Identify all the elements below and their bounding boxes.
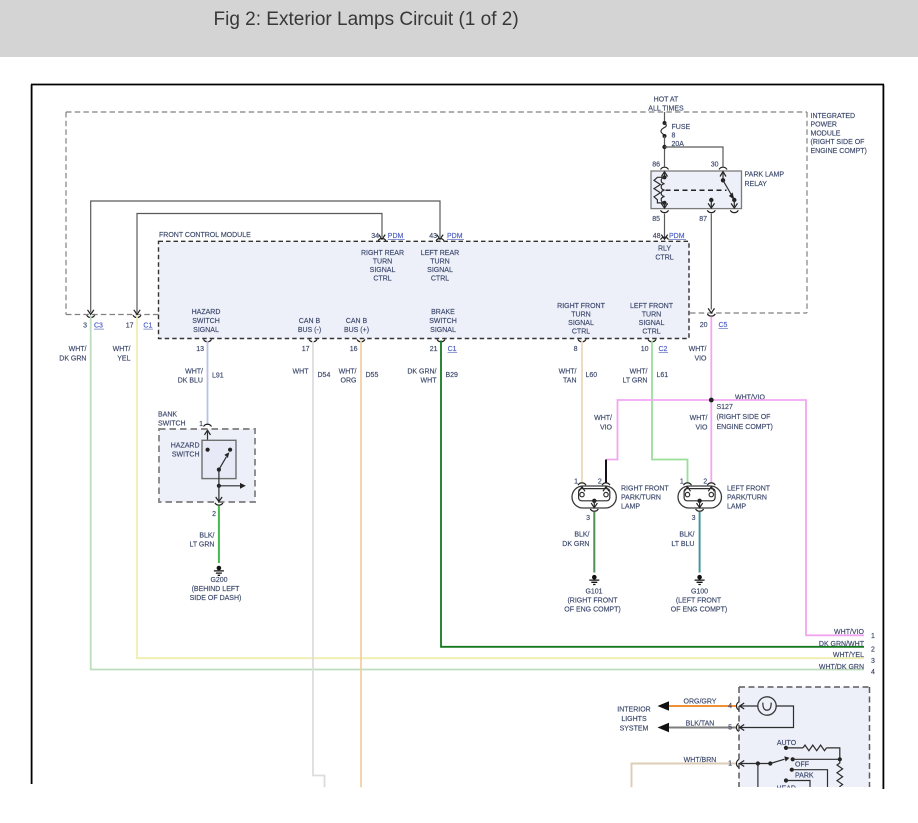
svg-text:WHT/: WHT/ (339, 369, 357, 376)
svg-text:C3: C3 (94, 323, 103, 330)
svg-text:BLK/: BLK/ (574, 532, 589, 539)
wire BLK/TAN to interior lights (663, 727, 737, 729)
hazard switch input wire (207, 430, 209, 450)
wire BLK/LT GRN (218, 506, 220, 563)
right lamp pin 1 (574, 479, 586, 492)
relay switch common wire (722, 172, 724, 181)
node HOT AT ALL TIMES (648, 97, 684, 113)
svg-text:RLY: RLY (658, 246, 671, 253)
svg-text:BRAKE: BRAKE (431, 309, 455, 316)
pin 87a cup (730, 210, 738, 212)
node BRAKE SWITCH SIGNAL (429, 309, 457, 334)
bank switch box (159, 429, 255, 502)
left lamp common junction (697, 499, 701, 503)
diagram frame (31, 85, 884, 790)
interior lights system label (617, 707, 650, 733)
ground G200 (214, 566, 224, 576)
svg-text:(RIGHT FRONT: (RIGHT FRONT (567, 598, 618, 605)
wire WHT/DK BLU hazard switch signal (207, 341, 209, 425)
svg-text:G100: G100 (691, 589, 708, 596)
svg-text:HOT AT: HOT AT (654, 97, 679, 104)
svg-text:2: 2 (598, 479, 602, 486)
IPM label (811, 113, 867, 155)
relay K1 park lamp relay box (651, 171, 742, 209)
svg-text:13: 13 (196, 346, 204, 353)
DK GRN/WHT label (407, 369, 437, 385)
S127 label (717, 395, 773, 432)
svg-text:WHT/BRN: WHT/BRN (684, 757, 717, 764)
WHT/DK BLU label (178, 369, 203, 385)
wire WHT/DK GRN (circuit 4) (91, 316, 864, 670)
svg-text:C5: C5 (719, 322, 728, 329)
svg-text:INTEGRATED: INTEGRATED (811, 113, 856, 120)
svg-text:L60: L60 (586, 372, 598, 379)
right lamp common junction (592, 499, 596, 503)
wire relay 85 to FCM pin 48 (664, 214, 666, 237)
FCM pin 43 PDM (429, 233, 464, 241)
left front park/turn lamp body (678, 486, 722, 508)
hazard switch branch arrow right (219, 483, 246, 489)
node LEFT REAR TURN SIGNAL CTRL (421, 250, 459, 283)
bank switch pin 1 (199, 421, 211, 435)
FCM pin 16 (350, 339, 365, 353)
BLK/LT BLU label (671, 532, 694, 549)
svg-text:D54: D54 (318, 372, 331, 379)
svg-text:1: 1 (680, 479, 684, 486)
wire WHT CAN B(-) (313, 341, 325, 788)
left lamp pin 3 (692, 501, 704, 522)
IPM pin 17 C1 (126, 310, 153, 330)
wire WHT/LT GRN left front turn (652, 341, 688, 484)
svg-text:L91: L91 (212, 373, 224, 380)
svg-text:CAN B: CAN B (346, 318, 368, 325)
header bar (0, 0, 918, 57)
svg-text:SIGNAL: SIGNAL (639, 320, 665, 327)
svg-text:WHT/: WHT/ (185, 369, 203, 376)
svg-text:1: 1 (574, 479, 578, 486)
OFF row junction (791, 757, 795, 761)
AUTO contact (784, 746, 788, 750)
svg-text:4: 4 (728, 703, 732, 710)
svg-text:CTRL: CTRL (373, 276, 391, 283)
svg-text:2: 2 (871, 647, 875, 654)
BLK/TAN arrow (658, 723, 670, 732)
svg-text:SIGNAL: SIGNAL (427, 267, 453, 274)
OFF contact (790, 768, 794, 772)
svg-text:DK GRN/WHT: DK GRN/WHT (819, 641, 865, 648)
wire WHT/TAN right front turn (581, 341, 583, 484)
splice S127 (709, 398, 714, 403)
svg-text:WHT/VIO: WHT/VIO (834, 629, 864, 636)
svg-text:BLK/: BLK/ (199, 533, 214, 540)
ground G100 (695, 575, 705, 585)
relay coil wire (664, 172, 666, 178)
headlamp switch common drop wire (757, 764, 759, 788)
svg-text:3: 3 (692, 515, 696, 522)
node CAN B BUS (-) (298, 318, 321, 334)
svg-text:WHT/: WHT/ (113, 346, 131, 353)
svg-text:PDM: PDM (447, 233, 463, 240)
fuse 8 (20A) (661, 121, 667, 138)
svg-text:2: 2 (703, 479, 707, 486)
wire FCM pin 43 to IPM pin 3 (91, 201, 440, 313)
svg-text:ENGINE COMPT): ENGINE COMPT) (811, 148, 867, 155)
node RIGHT FRONT TURN SIGNAL CTRL (557, 303, 605, 336)
svg-text:PARK/TURN: PARK/TURN (727, 495, 767, 502)
svg-text:BLK/TAN: BLK/TAN (686, 720, 715, 727)
hazard switch pivot (217, 468, 221, 472)
relay coil branch arrow (pin 86 side) (662, 172, 668, 177)
ballast resistor vertical (837, 759, 843, 787)
FCM pin 48 (653, 233, 686, 240)
wire WHT/ORG CAN B(+) (360, 341, 362, 788)
left lamp filaments (684, 489, 715, 501)
svg-text:TURN: TURN (430, 259, 449, 266)
headlamp switch junction b (768, 761, 772, 765)
node CAN B BUS (+) (344, 318, 369, 334)
right lamp pin 2 (598, 479, 610, 492)
svg-text:MODULE: MODULE (811, 130, 841, 137)
right lamp pin 3 (586, 501, 598, 522)
svg-text:WHT/: WHT/ (690, 415, 708, 422)
svg-text:DK GRN: DK GRN (59, 356, 86, 363)
svg-text:TURN: TURN (642, 312, 661, 319)
wire WHT/VIO splice right branch (circuit 1) (711, 400, 864, 635)
hazard switch fixed contact right (228, 448, 232, 452)
resistor junction (838, 757, 842, 761)
svg-text:8: 8 (672, 133, 676, 140)
pin 30 (711, 162, 727, 170)
svg-text:(LEFT FRONT: (LEFT FRONT (676, 598, 722, 605)
wire relay 87 down to IPM pin 20 (710, 214, 712, 310)
headlamp box pin 1 (728, 760, 744, 768)
svg-text:85: 85 (652, 216, 660, 223)
WHT/YEL wire label (113, 346, 131, 363)
left lamp pin 1 (680, 479, 692, 492)
svg-text:LAMP: LAMP (727, 504, 746, 511)
svg-text:PARK LAMP: PARK LAMP (745, 172, 785, 179)
svg-text:SIGNAL: SIGNAL (193, 327, 219, 334)
svg-text:RIGHT FRONT: RIGHT FRONT (557, 303, 605, 310)
relay contact 87 to edge arrow (708, 200, 714, 208)
svg-text:17: 17 (126, 323, 134, 330)
svg-text:8: 8 (574, 346, 578, 353)
BLK/LT GRN label (189, 533, 214, 549)
right lamp filaments (579, 489, 610, 501)
svg-text:LEFT FRONT: LEFT FRONT (727, 486, 771, 493)
WHT/TAN label (559, 369, 577, 385)
OFF row wire (793, 758, 840, 760)
svg-text:30: 30 (711, 162, 719, 169)
relay internal dashed link (666, 189, 727, 191)
svg-text:DK GRN/: DK GRN/ (407, 369, 436, 376)
hazard switch fixed contact left (206, 448, 210, 452)
svg-text:SWITCH: SWITCH (192, 318, 220, 325)
svg-text:SIGNAL: SIGNAL (370, 267, 396, 274)
fuse label (672, 124, 691, 148)
svg-text:CTRL: CTRL (655, 255, 673, 262)
svg-text:VIO: VIO (600, 425, 613, 432)
svg-text:SWITCH: SWITCH (429, 318, 457, 325)
svg-text:(RIGHT SIDE OF: (RIGHT SIDE OF (717, 414, 771, 421)
svg-text:FUSE: FUSE (672, 124, 691, 131)
wire fuse to relay pin 86 (664, 136, 666, 167)
svg-text:HAZARD: HAZARD (171, 443, 200, 450)
FCM pin 13 (196, 339, 211, 353)
svg-text:LT GRN: LT GRN (189, 542, 214, 549)
svg-text:TURN: TURN (571, 312, 590, 319)
relay label (745, 172, 785, 188)
svg-text:LT GRN: LT GRN (622, 378, 647, 385)
svg-text:RIGHT FRONT: RIGHT FRONT (621, 486, 669, 493)
svg-text:ORG: ORG (341, 378, 357, 385)
svg-text:WHT/DK GRN: WHT/DK GRN (819, 664, 864, 671)
relay coil (654, 177, 665, 203)
pin 86 (652, 162, 668, 170)
svg-text:LEFT REAR: LEFT REAR (421, 250, 459, 257)
left lamp label (727, 486, 771, 511)
svg-text:PARK: PARK (795, 773, 814, 780)
svg-text:TURN: TURN (373, 259, 392, 266)
headlamp switch junction a (756, 761, 760, 765)
headlamp box pin 5 (728, 724, 744, 732)
wire ORG/GRY to interior lights (663, 705, 737, 707)
svg-text:20: 20 (700, 322, 708, 329)
WHT/VIO label upper (689, 346, 707, 363)
WHT/VIO label below splice (690, 415, 708, 432)
wire FCM pin 34 to IPM pin 17 (137, 214, 382, 313)
svg-text:LEFT FRONT: LEFT FRONT (630, 303, 674, 310)
WHT/DK GRN wire label (59, 346, 86, 363)
svg-text:ENGINE COMPT): ENGINE COMPT) (717, 424, 773, 431)
svg-text:HAZARD: HAZARD (192, 309, 221, 316)
wire BLK segment to right lamp pin 2 (605, 460, 607, 484)
relay pin 30 arrow (720, 172, 726, 177)
svg-text:D55: D55 (366, 372, 379, 379)
svg-text:SYSTEM: SYSTEM (620, 726, 649, 733)
WHT/VIO label left branch (594, 415, 612, 432)
svg-text:2: 2 (212, 511, 216, 518)
node RIGHT REAR TURN SIGNAL CTRL (361, 250, 404, 283)
node RLY CTRL (655, 246, 673, 262)
svg-text:CTRL: CTRL (431, 276, 449, 283)
svg-text:LT BLU: LT BLU (671, 541, 694, 548)
svg-text:4: 4 (871, 669, 875, 676)
PARK contact wire (786, 781, 810, 788)
svg-text:WHT: WHT (293, 369, 310, 376)
PARK contact (784, 778, 788, 782)
svg-text:34: 34 (371, 233, 379, 240)
wire WHT/VIO splice left branch (607, 400, 712, 460)
svg-text:G200: G200 (210, 577, 227, 584)
AUTO resistor (786, 745, 840, 759)
svg-text:YEL: YEL (117, 356, 130, 363)
svg-text:WHT/YEL: WHT/YEL (833, 652, 864, 659)
svg-text:PARK/TURN: PARK/TURN (621, 495, 661, 502)
svg-text:VIO: VIO (695, 425, 708, 432)
svg-text:ALL TIMES: ALL TIMES (648, 106, 684, 113)
svg-text:RELAY: RELAY (745, 181, 768, 188)
wire BLK/DK GRN (593, 512, 595, 573)
ground G101 (589, 575, 599, 585)
svg-text:1: 1 (728, 760, 732, 767)
svg-text:PDM: PDM (388, 233, 404, 240)
relay contact 87 (709, 198, 713, 202)
svg-text:43: 43 (429, 233, 437, 240)
svg-text:3: 3 (586, 515, 590, 522)
svg-text:DK GRN: DK GRN (562, 541, 589, 548)
svg-text:AUTO: AUTO (777, 740, 797, 747)
svg-text:RIGHT REAR: RIGHT REAR (361, 250, 404, 257)
wire WHT/VIO park lamp feed (710, 317, 712, 484)
svg-text:DK BLU: DK BLU (178, 378, 203, 385)
svg-text:1: 1 (199, 421, 203, 428)
svg-text:21: 21 (430, 346, 438, 353)
relay contact 87a (732, 198, 736, 202)
IPM pin 3 C3 (83, 310, 104, 330)
left lamp pin 2 (703, 479, 715, 492)
wire BLK/LT BLU (699, 512, 701, 573)
svg-text:G101: G101 (585, 589, 602, 596)
svg-text:BLK/: BLK/ (679, 532, 694, 539)
svg-text:17: 17 (302, 346, 310, 353)
bank switch pin 2 (212, 486, 223, 518)
wire lamp to pin 5 (740, 706, 794, 728)
dome lamp symbol (758, 697, 776, 715)
relay switch common contact (721, 178, 725, 182)
FCM pin 21 C1 (430, 339, 457, 353)
svg-text:BUS (-): BUS (-) (298, 327, 321, 334)
bank switch label (158, 412, 186, 428)
junction at fuse output (662, 145, 666, 149)
svg-text:SWITCH: SWITCH (158, 421, 186, 428)
svg-text:48: 48 (653, 233, 661, 240)
svg-text:CTRL: CTRL (572, 329, 590, 336)
G100 label (671, 589, 727, 614)
G101 label (564, 589, 620, 614)
svg-text:WHT/: WHT/ (559, 369, 577, 376)
svg-text:SIDE OF DASH): SIDE OF DASH) (190, 595, 242, 602)
hazard switch pivot wire (218, 470, 220, 486)
wire lamp to pin 4 (740, 705, 758, 707)
relay switch movable arm (723, 180, 734, 200)
svg-text:(RIGHT SIDE OF: (RIGHT SIDE OF (811, 139, 865, 146)
svg-text:TAN: TAN (563, 378, 576, 385)
svg-text:CAN B: CAN B (299, 318, 321, 325)
svg-text:INTERIOR: INTERIOR (617, 707, 650, 714)
svg-text:WHT/: WHT/ (594, 415, 612, 422)
svg-text:86: 86 (652, 162, 660, 169)
hazard switch inner box (202, 440, 236, 478)
svg-text:16: 16 (350, 346, 358, 353)
BLK/DK GRN label (562, 532, 589, 549)
svg-text:ORG/GRY: ORG/GRY (684, 699, 717, 706)
FCM pin 34 PDM (371, 233, 405, 241)
svg-text:Fig 2: Exterior Lamps Circuit: Fig 2: Exterior Lamps Circuit (1 of 2) (214, 9, 519, 30)
svg-text:(BEHIND LEFT: (BEHIND LEFT (192, 586, 241, 593)
svg-text:FRONT CONTROL MODULE: FRONT CONTROL MODULE (159, 232, 251, 239)
relay contact 87a to edge arrow (731, 200, 737, 208)
relay coil to pin 85 arrow (661, 203, 667, 208)
headlamp box pin 4 (728, 702, 744, 710)
node HAZARD SWITCH SIGNAL (192, 309, 221, 334)
svg-text:WHT/: WHT/ (69, 346, 87, 353)
svg-text:WHT/: WHT/ (630, 369, 648, 376)
svg-text:BUS (+): BUS (+) (344, 327, 369, 334)
svg-text:POWER: POWER (811, 122, 837, 129)
svg-text:SIGNAL: SIGNAL (568, 320, 594, 327)
svg-text:10: 10 (641, 346, 649, 353)
right front park/turn lamp body (572, 486, 616, 508)
wire DK GRN/WHT brake switch (circuit 2) (441, 341, 864, 647)
hazard switch label (171, 443, 200, 459)
svg-text:OF ENG COMPT): OF ENG COMPT) (671, 607, 727, 614)
svg-text:C2: C2 (659, 346, 668, 353)
svg-text:3: 3 (871, 658, 875, 665)
headlamp switch common wire (740, 763, 771, 765)
WHT/ORG label (339, 369, 357, 385)
svg-text:CTRL: CTRL (642, 329, 660, 336)
svg-text:WHT/: WHT/ (689, 346, 707, 353)
svg-text:C1: C1 (143, 323, 152, 330)
FCM pin 8 (574, 339, 586, 353)
svg-text:PDM: PDM (669, 233, 685, 240)
WHT/LT GRN label (622, 369, 647, 385)
svg-text:BANK: BANK (158, 412, 177, 419)
relay coil top junction (662, 175, 666, 179)
svg-text:WHT: WHT (421, 378, 438, 385)
svg-text:SIGNAL: SIGNAL (430, 327, 456, 334)
headlamp switch box fill (739, 687, 870, 787)
hazard switch movable arm (219, 452, 229, 469)
IPM pin 20 C5 (700, 308, 728, 329)
svg-text:VIO: VIO (694, 356, 707, 363)
OFF contact wire (792, 770, 828, 787)
pin 87 (699, 210, 715, 223)
ORG/GRY arrow (658, 701, 670, 710)
bottom clip mask (600, 788, 880, 818)
svg-text:3: 3 (83, 323, 87, 330)
svg-text:SWITCH: SWITCH (172, 452, 200, 459)
svg-text:C1: C1 (448, 346, 457, 353)
integrated power module boundary (dashed) (66, 112, 807, 315)
headlamp switch box dashed border (739, 687, 870, 787)
relay coil bottom junction (662, 201, 666, 205)
svg-text:B29: B29 (446, 372, 459, 379)
FCM pin 10 C2 (641, 339, 668, 353)
svg-text:5: 5 (728, 724, 732, 731)
wire WHT/YEL (circuit 3) (137, 316, 864, 658)
svg-text:1: 1 (871, 633, 875, 640)
headlamp switch movable arm (770, 756, 789, 763)
wire battery feed into fuse (664, 112, 666, 123)
svg-text:L61: L61 (657, 372, 669, 379)
svg-text:LIGHTS: LIGHTS (621, 716, 647, 723)
svg-text:OF ENG COMPT): OF ENG COMPT) (564, 607, 620, 614)
front control module box (159, 241, 690, 338)
svg-text:LAMP: LAMP (621, 504, 640, 511)
wire branch to relay pin 30 (665, 147, 724, 167)
FCM pin 17 (302, 339, 317, 353)
svg-text:OFF: OFF (795, 762, 809, 769)
right lamp label (621, 486, 669, 511)
wire WHT/BRN (632, 764, 737, 788)
hazard switch output junction (217, 484, 221, 488)
svg-text:S127: S127 (717, 404, 733, 411)
pin 85 (652, 210, 668, 223)
svg-text:87: 87 (699, 216, 707, 223)
G200 label (190, 577, 242, 602)
